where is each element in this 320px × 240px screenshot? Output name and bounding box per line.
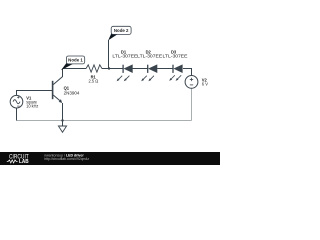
wire D1 to D2 [132, 68, 147, 70]
LED D3 [169, 65, 182, 81]
svg-text:6 V: 6 V [202, 81, 208, 86]
ground [62, 121, 64, 127]
svg-text:2.5 Ω: 2.5 Ω [89, 78, 99, 83]
node A flag Node 1 [61, 56, 85, 70]
transistor Q1 [53, 69, 63, 104]
wire collector stub to resistor [63, 68, 87, 70]
wire D3 to V2 [183, 69, 192, 76]
wire D2 to D3 [157, 68, 173, 70]
svg-text:LTL-307EE: LTL-307EE [137, 54, 162, 59]
wire V1 top leg [17, 91, 53, 96]
wire V1 bottom leg [16, 108, 18, 121]
wire resistor to D1 [102, 68, 123, 70]
wire V2 bottom [191, 88, 193, 120]
svg-text:LTL-307EE: LTL-307EE [163, 54, 188, 59]
wire bottom rail [17, 120, 192, 122]
wire emitter to rail [62, 103, 64, 121]
logo circuitlab [7, 154, 29, 165]
ground rail junction dot [61, 119, 63, 121]
footer credit text [44, 153, 89, 161]
labels [26, 49, 208, 108]
svg-text:Node 1: Node 1 [68, 58, 83, 63]
node N2 junction dot [108, 67, 110, 69]
LED D1 [117, 65, 133, 82]
voltage source V2 [185, 76, 198, 89]
svg-text:Node 2: Node 2 [114, 28, 129, 33]
voltage source V1 [10, 95, 23, 108]
node B flag Node 2 [108, 26, 131, 40]
footer banner [0, 152, 220, 165]
svg-text:LAB: LAB [19, 159, 29, 165]
resistor R1 [86, 65, 102, 72]
LED D2 [141, 65, 157, 82]
svg-text:LTL-307EE: LTL-307EE [112, 54, 137, 59]
svg-text:http://circuitlab.com/c/92qm4z: http://circuitlab.com/c/92qm4z [44, 157, 89, 161]
svg-text:10 kHz: 10 kHz [26, 103, 38, 108]
wire node2 stub [108, 40, 110, 69]
svg-text:2N3904: 2N3904 [64, 91, 81, 96]
